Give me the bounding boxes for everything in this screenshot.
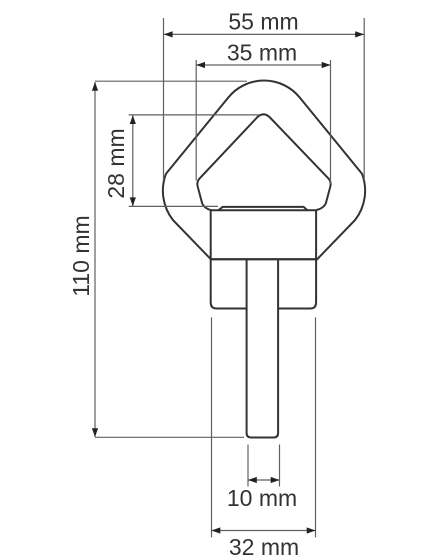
110 mm extension line bottom [95,436,244,438]
28 mm dimension line [132,115,134,206]
110 mm dimension line [94,82,96,437]
28 mm extension line bottom [129,205,218,207]
55 mm arrow left [164,31,173,37]
32 mm arrow left [212,527,221,533]
svg-text:35 mm: 35 mm [227,40,297,66]
svg-text:10 mm: 10 mm [227,485,297,511]
10 mm arrow left [248,477,257,483]
28 mm extension line top [129,114,260,116]
110 mm arrow bottom [92,428,98,437]
svg-text:32 mm: 32 mm [229,534,299,560]
shaft [247,259,279,437]
28 mm arrow bottom [130,197,136,206]
lower block [211,259,247,308]
55 mm extension line left [163,18,165,180]
35 mm arrow right [322,62,331,68]
svg-text:55 mm: 55 mm [228,9,298,35]
32 mm dimension line [212,530,316,532]
inner triangle recess [197,114,330,210]
step line [211,258,316,260]
110 mm arrow top [92,82,98,91]
10 mm extension line right [279,445,281,487]
55 mm dimension line [164,33,364,35]
knob head outline [163,81,365,260]
10 mm extension line left [247,445,249,487]
top strip (boss edge) [219,207,308,210]
10 mm arrow right [271,477,280,483]
35 mm dimension line [196,64,330,66]
collar left edge [210,210,212,259]
svg-text:110 mm: 110 mm [68,215,94,296]
svg-text:28 mm: 28 mm [103,128,129,198]
10 mm dimension line [248,479,280,481]
32 mm extension line right [315,317,317,537]
35 mm extension line right [330,60,332,184]
32 mm arrow right [307,527,316,533]
35 mm arrow left [196,62,205,68]
110 mm extension line top [95,80,247,82]
55 mm extension line right [363,18,365,180]
28 mm arrow top [130,115,136,124]
collar right edge [315,210,317,259]
32 mm extension line left [211,317,213,537]
35 mm extension line left [195,60,197,181]
55 mm arrow right [355,31,364,37]
collar top line [211,209,316,211]
